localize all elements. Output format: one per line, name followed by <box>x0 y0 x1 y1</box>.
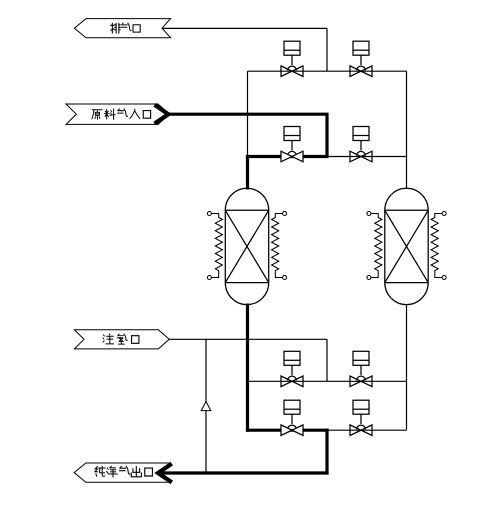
wire: hydrogen inject header <box>169 338 327 340</box>
wire: thick left vessel bottom to row D <box>246 304 249 432</box>
flag: raw gas inlet 原料气入口 <box>66 104 170 124</box>
wire: row D thin segment <box>327 429 407 431</box>
wire: exhaust header from flag to drop <box>162 27 327 29</box>
label: 纯净气出口 text <box>95 466 152 477</box>
wire: exhaust drop into row A <box>326 28 328 71</box>
wire: thick bottom product line to outlet flag <box>160 471 329 474</box>
wire: row C header <box>248 380 407 382</box>
heater coil E2 right of T1 (mirrored) <box>272 212 287 280</box>
valve V8 row D right <box>350 400 372 435</box>
vessel T2 right adsorber <box>385 188 428 304</box>
wire: row A header <box>248 70 407 72</box>
valve V4 row B right <box>350 127 372 162</box>
valve V3 row B left (on thick feed) <box>281 127 303 162</box>
flag: exhaust port 排气口 <box>74 19 170 38</box>
wire: thick product drop <box>325 429 328 475</box>
heater coil E3 left of T2 <box>367 212 382 280</box>
label: 排气口 text <box>111 23 141 33</box>
heater coil E4 right of T2 (mirrored) <box>431 212 446 280</box>
wire: thick drop into left vessel <box>246 155 249 190</box>
flag: hydrogen inject 注氢口 <box>74 330 169 349</box>
wire: injection branch vertical <box>205 339 207 473</box>
check arrow on injection branch <box>201 402 211 411</box>
wire: thick feed line from inlet flag <box>166 113 329 157</box>
wire: left branch row A to row B <box>247 71 249 156</box>
valve V2 row A right <box>350 41 372 76</box>
flag: pure gas outlet 纯净气出口 <box>74 463 172 482</box>
vessel T1 left adsorber <box>225 188 268 304</box>
label: 原料气入口 text <box>92 109 151 119</box>
heater coil E1 left of T1 <box>207 212 222 280</box>
wire: right vessel bottom to row D <box>406 304 408 430</box>
arrowhead: outlet thick chevron <box>158 464 172 483</box>
valve V5 row C left <box>281 351 303 386</box>
wire: thick row D product segment <box>246 429 329 432</box>
arrowhead: inlet thick chevron <box>155 105 169 124</box>
valve V7 row D left (on thick product) <box>281 400 303 435</box>
wire: inject drop to row C <box>326 339 328 381</box>
wire: row B thin segment right of feed drop <box>327 156 407 158</box>
wire: right branch row A down to right vessel top <box>406 71 408 189</box>
wire: thick row B feed segment <box>246 155 329 158</box>
valve V6 row C right <box>350 351 372 386</box>
valve V1 row A left <box>281 41 303 76</box>
label: 注氢口 text <box>103 334 139 344</box>
